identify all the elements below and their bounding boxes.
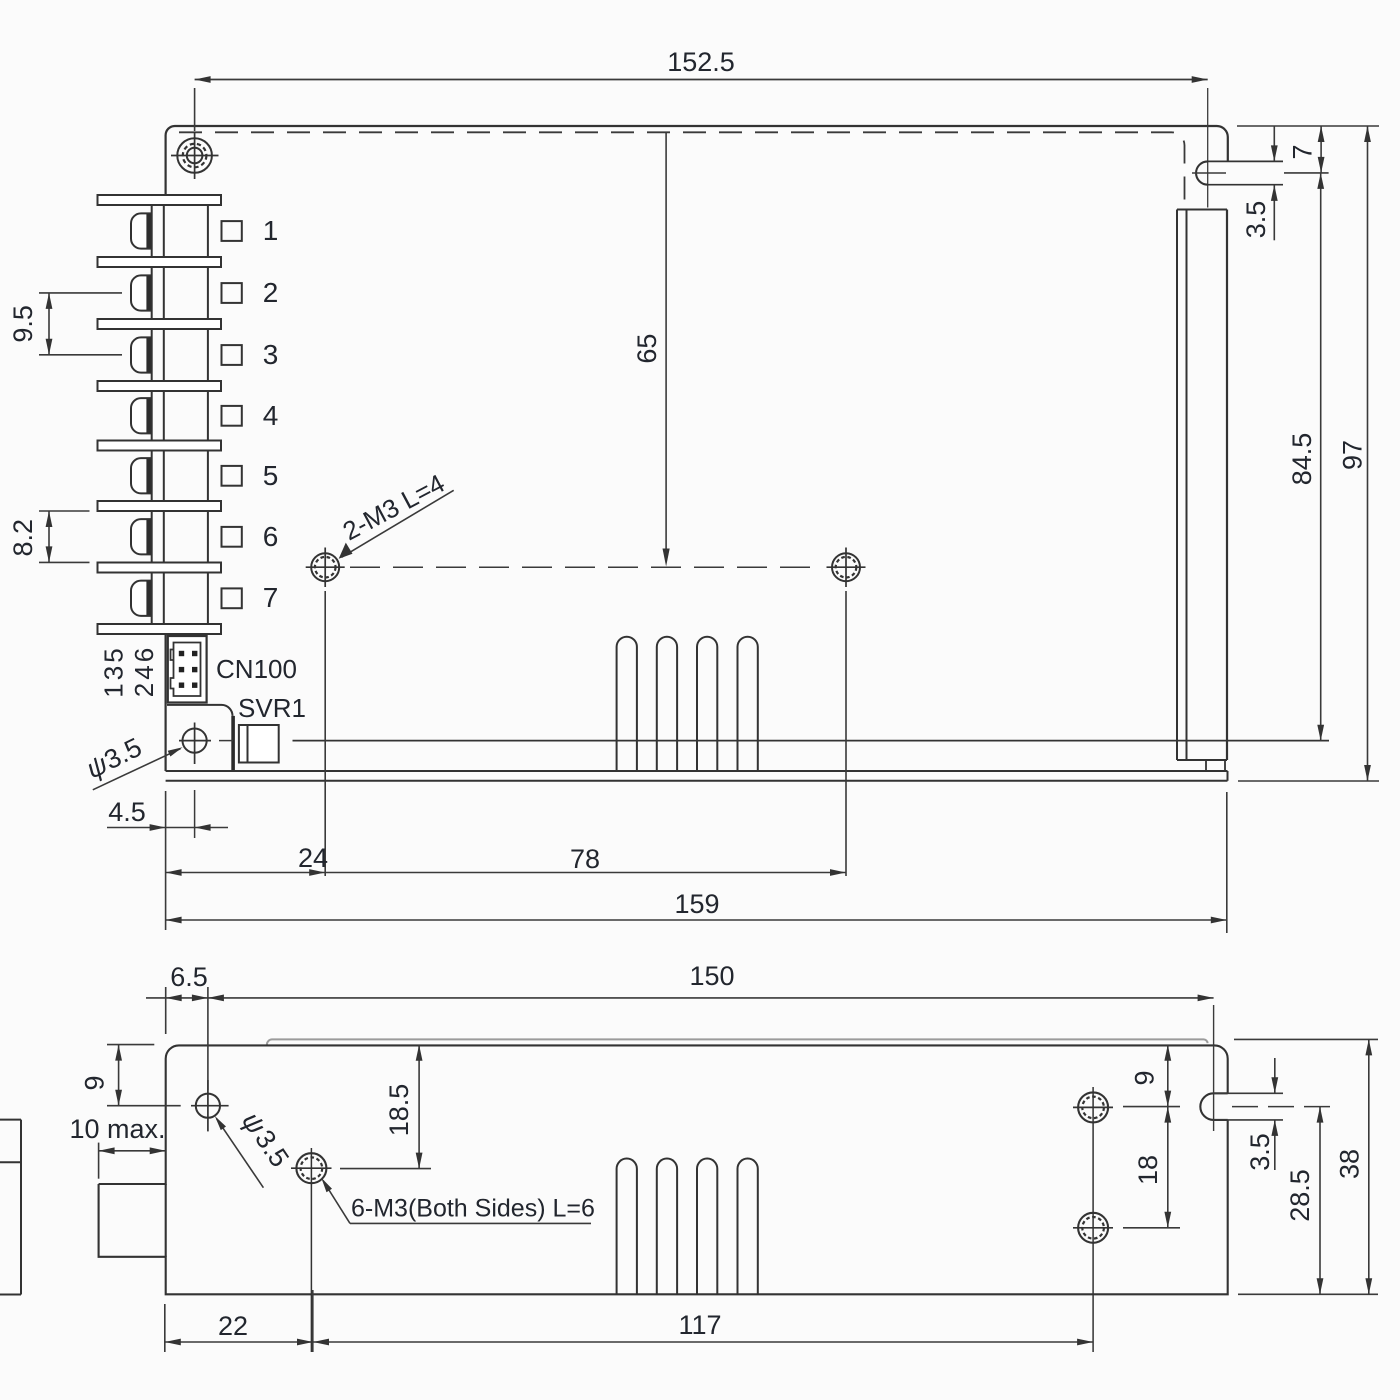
terminal screws: [131, 213, 151, 616]
dimension 9 right side view: [1123, 1045, 1180, 1107]
svg-text:150: 150: [689, 961, 734, 991]
vent slots top view: [617, 637, 758, 771]
dimension 84.5: [1287, 173, 1324, 741]
mounting hole side view left psi3.5: [191, 1080, 229, 1131]
dimension 8.2 left: [8, 511, 90, 562]
svg-text:97: 97: [1338, 440, 1368, 470]
svg-text:9: 9: [80, 1075, 110, 1090]
side view far top edge: [267, 1039, 1208, 1044]
terminal block body vertical lines: [152, 205, 208, 624]
dimension 10 max: [69, 1114, 165, 1179]
label psi 3.5 side view: [215, 1107, 295, 1188]
M3 mounting hole side view (6-M3): [291, 1148, 332, 1352]
extension line base bottom right: [1238, 780, 1379, 782]
top view enclosure outline (left wall, top edge, right corner): [166, 126, 1228, 771]
svg-text:65: 65: [632, 334, 662, 364]
svg-text:SVR1: SVR1: [238, 693, 306, 723]
connector CN100: [168, 636, 207, 703]
terminal pin squares: [222, 221, 242, 608]
notch mounting hole top-right: [1192, 161, 1283, 184]
svg-text:2: 2: [263, 277, 279, 308]
dimension 28.5: [1285, 1107, 1323, 1295]
extension line left wall lower: [165, 791, 167, 930]
right side rail bar top view: [1177, 210, 1227, 772]
svg-text:84.5: 84.5: [1287, 433, 1317, 486]
svg-text:1: 1: [263, 215, 279, 246]
svg-text:7: 7: [1288, 144, 1318, 159]
dimensions 22 and 117: [165, 1290, 1093, 1352]
dimension 24: [166, 591, 328, 876]
terminal block separator plates: [98, 195, 222, 634]
dimension 152.5 top: [195, 47, 1208, 208]
svg-text:9.5: 9.5: [8, 305, 38, 343]
dimensions 6.5 and 150: [146, 961, 1214, 1090]
notch mounting hole side view right: [1200, 1005, 1330, 1131]
svg-text:18.5: 18.5: [384, 1084, 414, 1137]
inner chassis line: [293, 740, 1330, 742]
mounting hole bottom-left psi3.5: [179, 723, 233, 839]
M3 mounting hole side view right y=1227.8: [1073, 1213, 1113, 1243]
svg-text:9: 9: [1130, 1070, 1160, 1085]
corner mounting hole top-left: [171, 132, 219, 179]
svg-text:38: 38: [1335, 1149, 1365, 1179]
svg-text:246: 246: [129, 645, 159, 697]
svg-text:4.5: 4.5: [108, 797, 146, 827]
vent slots side view: [617, 1159, 758, 1295]
svg-text:152.5: 152.5: [667, 47, 735, 77]
svg-text:5: 5: [263, 460, 279, 491]
label 6-M3 Both Sides L=6: [321, 1178, 595, 1224]
M3 mounting hole side view right y=1107.4: [1073, 1092, 1113, 1122]
dimension 18: [1123, 1107, 1180, 1228]
top view hidden cover edge (dashed): [179, 132, 1185, 209]
svg-text:24: 24: [298, 843, 328, 873]
dimension 9.5 left: [8, 293, 122, 355]
potentiometer SVR1 box: [239, 725, 279, 763]
dimension 159: [166, 792, 1227, 933]
dimension 38: [1234, 1039, 1378, 1294]
svg-text:8.2: 8.2: [8, 519, 38, 557]
mating plug outline far left: [0, 1120, 21, 1295]
svg-text:159: 159: [674, 889, 719, 919]
svg-text:135: 135: [99, 645, 129, 697]
dimension 3.5 top right: [1241, 126, 1278, 240]
thick PCB edge line: [231, 716, 235, 771]
svg-text:3: 3: [263, 339, 279, 370]
svg-text:6.5: 6.5: [170, 962, 208, 992]
svg-text:CN100: CN100: [216, 654, 297, 684]
svg-text:78: 78: [570, 844, 600, 874]
dashed centerline between M3 holes: [350, 566, 822, 568]
base plate strip top view: [166, 771, 1228, 781]
dimension 97: [1338, 126, 1371, 781]
svg-text:28.5: 28.5: [1285, 1169, 1315, 1222]
label psi 3.5 top view: [81, 732, 182, 790]
terminal numbers 1-7: [263, 215, 279, 613]
M3 mounting hole left (2-M3): [306, 548, 345, 588]
side view outline: [99, 1045, 1228, 1294]
M3 mounting hole right (2-M3): [827, 548, 866, 588]
svg-text:4: 4: [263, 400, 279, 431]
dimension 65: [632, 132, 670, 566]
svg-text:117: 117: [678, 1310, 721, 1340]
svg-text:18: 18: [1133, 1155, 1163, 1185]
dimension 4.5: [107, 797, 228, 831]
svg-text:6: 6: [263, 521, 279, 552]
dimension 3.5 side view: [1214, 1058, 1283, 1171]
svg-text:7: 7: [263, 582, 279, 613]
svg-text:3.5: 3.5: [1241, 201, 1271, 239]
internal step outline below CN100: [167, 705, 233, 716]
side view left edge through socket: [165, 1184, 167, 1257]
centerline through right holes: [1092, 1087, 1094, 1352]
dimension 18.5: [340, 1045, 431, 1169]
dimension 7: [1288, 126, 1325, 173]
svg-text:22: 22: [218, 1311, 248, 1341]
label 2-M3 L=4 with leader: [338, 468, 454, 559]
svg-text:6-M3(Both Sides) L=6: 6-M3(Both Sides) L=6: [351, 1195, 595, 1223]
dimension 78: [325, 591, 846, 876]
extension line top edge right: [1237, 125, 1379, 127]
svg-text:3.5: 3.5: [1245, 1133, 1275, 1171]
extension line hole centerline right: [1284, 172, 1329, 174]
dimension 9 left side view: [80, 1045, 181, 1106]
svg-text:10 max.: 10 max.: [69, 1114, 165, 1144]
